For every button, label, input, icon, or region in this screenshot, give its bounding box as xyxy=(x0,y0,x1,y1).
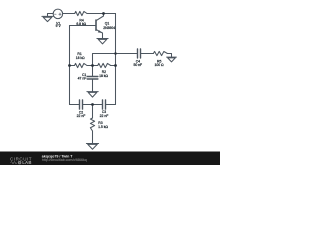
resistor R5 xyxy=(153,51,167,55)
node dot R1 left at left vertical xyxy=(68,64,71,67)
wire C2 to mid node xyxy=(83,104,93,106)
resistor R2 xyxy=(98,63,111,67)
svg-text:50 nF: 50 nF xyxy=(133,63,142,67)
ground (R5) xyxy=(167,57,177,62)
banner bar xyxy=(0,152,220,166)
svg-text:9 V: 9 V xyxy=(56,24,62,28)
ground (C1) xyxy=(87,92,98,98)
ground G1 (at V1 negative terminal) xyxy=(42,14,53,22)
wire mid node up to collector rail xyxy=(93,54,116,66)
voltage source V1 xyxy=(53,9,63,19)
svg-text:2N3904: 2N3904 xyxy=(103,26,115,30)
node dot at Q1 collector on top rail xyxy=(102,12,105,15)
node dot mid of R1/R2 xyxy=(91,64,94,67)
wire R3 to ground xyxy=(92,131,94,143)
wire R4 to top-right corner xyxy=(87,13,116,15)
capacitor C1 xyxy=(87,66,98,92)
wire R2 left lead xyxy=(93,65,98,67)
svg-text:1.5 kΩ: 1.5 kΩ xyxy=(98,125,108,129)
wire Q1 base to left vertical xyxy=(70,25,97,27)
svg-text:Q1: Q1 xyxy=(105,21,110,25)
transistor Q1 xyxy=(96,14,104,39)
wire mid node to C3 xyxy=(93,104,103,106)
banner title text xyxy=(42,154,87,162)
wire right vertical rail xyxy=(115,14,117,105)
wire R1 left lead xyxy=(70,65,75,67)
capacitor C2 xyxy=(80,100,83,109)
wire R5 to ground xyxy=(167,54,171,57)
resistor R1 xyxy=(75,63,88,67)
node dot bottom mid (C2/C3/R3) xyxy=(91,103,94,106)
CircuitLab logo xyxy=(10,156,32,165)
svg-text:http://circuitlab.com/c9866kq: http://circuitlab.com/c9866kq xyxy=(42,158,87,162)
wire bottom row left xyxy=(70,104,80,106)
resistor R3 xyxy=(90,118,94,131)
svg-text:18 kΩ: 18 kΩ xyxy=(99,74,108,78)
wire collector rail to C4 xyxy=(116,53,138,55)
svg-text:47 nF: 47 nF xyxy=(78,77,87,81)
svg-text:100 Ω: 100 Ω xyxy=(154,63,164,67)
wire R1 right lead xyxy=(87,65,93,67)
capacitor C4 xyxy=(138,49,141,58)
svg-text:6.8 kΩ: 6.8 kΩ xyxy=(76,22,86,26)
svg-text:LAB: LAB xyxy=(22,160,32,165)
svg-text:18 kΩ: 18 kΩ xyxy=(76,56,85,60)
wire C4 to R5 xyxy=(141,53,154,55)
ground (Q1 emitter) xyxy=(97,39,108,44)
wire V1+ to R4 xyxy=(63,13,75,15)
wire R2 right lead xyxy=(111,65,116,67)
ground (R3) xyxy=(86,144,98,150)
svg-text:22 nF: 22 nF xyxy=(77,114,86,118)
wire C3 to right vertical xyxy=(106,104,116,106)
node dot R2 right at right vertical xyxy=(114,64,117,67)
capacitor C3 xyxy=(103,100,106,109)
svg-text:22 nF: 22 nF xyxy=(100,114,109,118)
node dot C4 tap on right vertical xyxy=(114,52,117,55)
wire left vertical xyxy=(69,26,71,105)
resistor R4 xyxy=(75,11,87,15)
wire mid node down to R3 xyxy=(92,105,94,119)
